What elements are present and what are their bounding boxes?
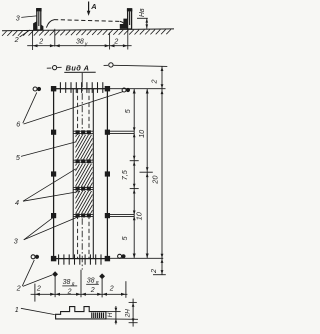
svg-text:38: 38 (63, 279, 71, 286)
svg-text:2: 2 (90, 287, 95, 294)
svg-text:Нв: Нв (139, 8, 146, 17)
svg-text:2: 2 (113, 38, 118, 45)
svg-text:4: 4 (15, 198, 19, 207)
svg-text:2: 2 (38, 39, 43, 46)
svg-text:я: я (71, 281, 75, 287)
svg-text:2: 2 (67, 289, 72, 296)
svg-text:2: 2 (149, 269, 158, 274)
svg-text:2: 2 (16, 284, 21, 293)
svg-text:2: 2 (150, 80, 159, 85)
svg-text:2: 2 (109, 286, 114, 293)
svg-text:6: 6 (16, 119, 20, 128)
svg-text:38: 38 (87, 277, 95, 284)
svg-text:А: А (90, 2, 96, 11)
svg-text:2: 2 (14, 35, 19, 44)
svg-text:7,5: 7,5 (120, 169, 129, 180)
svg-text:38: 38 (76, 38, 84, 45)
svg-text:2: 2 (36, 285, 41, 292)
svg-text:Н: Н (107, 312, 114, 317)
svg-text:3: 3 (16, 14, 20, 23)
svg-text:Вид А: Вид А (66, 63, 90, 72)
svg-text:20: 20 (151, 175, 160, 185)
svg-text:1: 1 (15, 305, 19, 314)
svg-text:2Н: 2Н (125, 309, 132, 319)
svg-text:3: 3 (14, 237, 18, 246)
svg-text:я: я (95, 280, 99, 286)
svg-text:10: 10 (137, 129, 146, 138)
svg-text:10: 10 (135, 211, 144, 220)
svg-text:у: у (84, 41, 88, 47)
